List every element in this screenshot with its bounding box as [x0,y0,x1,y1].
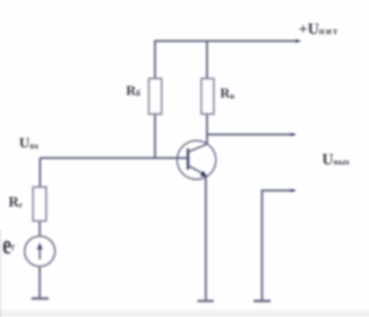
scan shading left edge [0,230,3,317]
arrow terminal +Upit [296,39,302,43]
transistor VT1 emitter diagonal [188,166,203,174]
wire +Upit rail [155,41,298,79]
transistor VT1 collector diagonal [188,144,207,152]
source eg circle [25,236,55,266]
svg-text:+Uпит: +Uпит [299,21,340,38]
wire Rk top [206,41,208,79]
transistor VT1 base bar [187,149,190,170]
wire lower output [262,191,295,302]
arrow terminal output bottom [291,189,296,193]
scan shading bottom edge [0,307,369,317]
svg-text:Rб: Rб [126,84,140,99]
resistor Rk [201,79,214,115]
resistor Rg [33,187,46,221]
wire source to ground [39,267,41,299]
wire Rb bottom [154,114,156,158]
wire base input [40,157,188,159]
svg-text:Rк: Rк [220,87,235,102]
wire Rg to source [39,221,41,236]
wire emitter down [205,176,207,302]
svg-text:Rг: Rг [9,195,23,211]
ground left [32,297,49,299]
ground emitter [198,300,214,302]
wire Rk bottom [206,114,208,144]
wire Uvx down [39,158,41,187]
transistor VT1 emitter arrow [200,171,207,177]
ground right [254,300,271,302]
svg-text:Uвх: Uвх [19,136,39,152]
arrow terminal output top [291,133,296,137]
svg-text:Uвых: Uвых [322,151,350,168]
source eg arrow [37,243,43,260]
svg-text:eг: eг [3,229,15,260]
transistor VT1 circle [177,141,216,180]
wire collector tap [207,134,295,136]
resistor Rb [149,79,162,115]
